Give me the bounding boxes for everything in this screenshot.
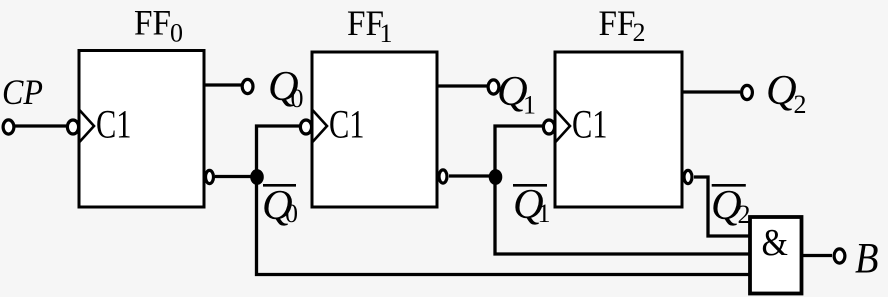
- svg-text:C1: C1: [96, 102, 132, 147]
- svg-text:FF: FF: [347, 3, 384, 43]
- svg-text:C1: C1: [329, 102, 365, 147]
- svg-text:1: 1: [380, 19, 393, 48]
- svg-text:1: 1: [538, 199, 551, 228]
- svg-text:0: 0: [170, 19, 183, 48]
- svg-text:Q: Q: [766, 67, 797, 114]
- svg-text:C1: C1: [572, 102, 608, 147]
- svg-text:2: 2: [633, 18, 646, 47]
- svg-text:1: 1: [523, 91, 536, 120]
- svg-text:FF: FF: [134, 3, 171, 43]
- svg-text:&: &: [762, 222, 789, 264]
- svg-text:2: 2: [794, 90, 807, 119]
- svg-text:B: B: [855, 236, 879, 283]
- svg-text:CP: CP: [2, 72, 43, 112]
- svg-text:0: 0: [285, 199, 298, 228]
- svg-text:FF: FF: [599, 3, 636, 43]
- svg-text:2: 2: [738, 200, 751, 229]
- svg-text:0: 0: [291, 84, 304, 113]
